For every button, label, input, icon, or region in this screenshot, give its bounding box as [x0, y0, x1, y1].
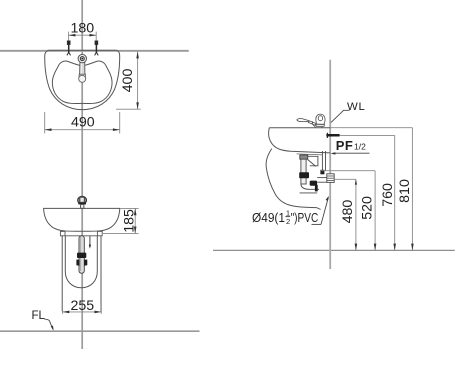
ext line 760 (WL level): [340, 134, 395, 136]
faucet handle (front view): [78, 196, 87, 204]
svg-text:400: 400: [120, 69, 136, 93]
svg-text:810: 810: [397, 179, 413, 203]
PF leader underline: [333, 152, 370, 154]
basin profile (side view): [269, 128, 331, 153]
basin rim (side view): [269, 127, 330, 129]
svg-text:180: 180: [70, 20, 94, 36]
dim 180 extension lines: [68, 32, 70, 41]
basin (front view): [44, 208, 120, 231]
svg-text:185: 185: [121, 209, 137, 233]
drain tailpiece (front view): [79, 236, 84, 273]
wall drain pipe (side view): [321, 151, 323, 171]
dim 400 line: [137, 52, 139, 110]
dim 480 line: [355, 179, 357, 250]
dim 255 line: [63, 311, 102, 313]
ext line 480: [334, 178, 356, 180]
pedestal flange left (front view): [60, 231, 65, 235]
pedestal flange right (front view): [97, 231, 102, 235]
trap fitting (front view): [76, 260, 79, 266]
tailpiece nut (side view): [299, 172, 309, 178]
basin inner bowl (top view): [52, 61, 112, 103]
drain nut (front view): [77, 253, 86, 258]
dim 185 line: [134, 208, 136, 233]
tailpiece (side view): [301, 159, 306, 184]
wall pipe junction (side view): [320, 170, 324, 175]
trap connector dark (side view): [310, 181, 317, 186]
dim 810 line: [411, 128, 413, 251]
dim 185 extension lines: [121, 207, 139, 209]
mounting screw right (top view): [95, 41, 99, 55]
floor line (right view): [213, 249, 455, 251]
basin outer outline (top view): [45, 50, 120, 109]
overflow channel box (side view): [308, 156, 318, 166]
svg-text:1/2: 1/2: [354, 142, 366, 152]
svg-text:480: 480: [340, 200, 356, 224]
wall line (top view back wall): [0, 50, 189, 52]
pedestal sides (front view): [61, 236, 63, 311]
faucet (side view): [297, 118, 309, 121]
ext line 520: [320, 170, 375, 172]
mounting screw left (top view): [67, 41, 71, 55]
dia 49 leader diagonal: [321, 197, 328, 224]
trap outlet bar (side view): [315, 185, 318, 192]
svg-text:FL: FL: [32, 310, 46, 322]
half pedestal shroud (side view): [266, 149, 321, 210]
svg-text:PF: PF: [336, 138, 353, 153]
svg-text:255: 255: [70, 298, 94, 314]
floor line FL (left): [0, 330, 200, 332]
svg-text:WL: WL: [347, 101, 366, 113]
ext line 810 (rim level): [330, 127, 412, 129]
dim 520 line: [374, 171, 376, 251]
dim 400 extension line bottom: [116, 108, 141, 110]
drain flange (side view): [300, 155, 308, 159]
basin underside shelf (side view): [297, 154, 323, 155]
overflow pipe (front view): [89, 236, 91, 245]
FL leader: [44, 319, 53, 329]
dim 180 line: [69, 34, 97, 36]
svg-text:760: 760: [380, 183, 396, 207]
trap elbow (side view): [301, 184, 319, 190]
svg-text:Ø49(1: Ø49(1: [252, 210, 285, 225]
dim 490 line: [45, 129, 120, 131]
svg-text:2: 2: [286, 217, 290, 226]
faucet body (side view): [316, 114, 325, 124]
PF supply stub: [326, 134, 339, 137]
svg-text:")PVC: ")PVC: [291, 210, 319, 225]
dim 490 extension lines: [44, 112, 46, 133]
faucet base circle (top view): [78, 54, 86, 62]
ribbed coupling at wall (side view): [327, 174, 334, 183]
faucet spout end ring (top view): [79, 74, 85, 77]
svg-text:490: 490: [71, 115, 95, 131]
faucet spout (top view): [80, 62, 85, 75]
dia 49 leader underline: [312, 223, 322, 225]
wall line (side view): [329, 60, 331, 269]
trap arm to wall (side view): [317, 177, 327, 179]
dim 760 line: [394, 135, 396, 250]
faucet neck (front view): [81, 204, 84, 208]
svg-text:520: 520: [359, 196, 375, 220]
pedestal inner U (front view): [65, 236, 97, 288]
centerline (left views): [81, 0, 83, 349]
WL leader: [331, 110, 350, 122]
